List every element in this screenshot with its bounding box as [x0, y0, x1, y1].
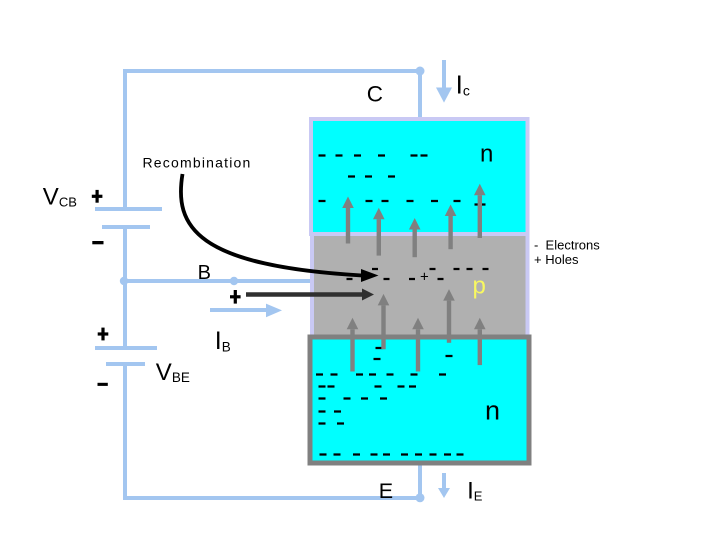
svg-text:E: E [379, 479, 393, 503]
svg-text:B: B [198, 262, 211, 284]
svg-text:+: + [420, 269, 429, 286]
svg-text:- Electrons: - Electrons [534, 237, 600, 252]
svg-text:n: n [485, 395, 500, 425]
svg-text:p: p [473, 273, 486, 300]
svg-text:n: n [480, 140, 493, 167]
svg-text:Recombination: Recombination [143, 155, 252, 171]
svg-text:C: C [367, 81, 383, 106]
svg-text:+ Holes: + Holes [534, 252, 579, 267]
